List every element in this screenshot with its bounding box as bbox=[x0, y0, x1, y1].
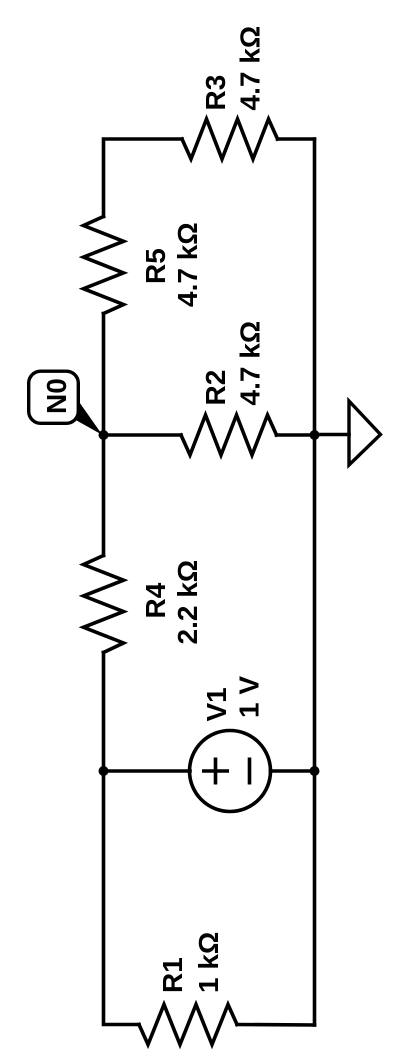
node A junction dot (N0 left) bbox=[99, 430, 109, 440]
svg-text:R1: R1 bbox=[157, 957, 188, 993]
wire: bottom wire right lead bbox=[237, 1023, 315, 1027]
resistor R1 bbox=[139, 1005, 237, 1045]
node N0 callout tail bbox=[65, 398, 103, 436]
wire: left rail V1 row to bottom wire bbox=[104, 771, 140, 1025]
resistor R3 bbox=[182, 119, 278, 159]
V1 plus sign bbox=[202, 758, 250, 785]
svg-text:R2: R2 bbox=[200, 370, 231, 406]
V1 minus sign bbox=[248, 758, 252, 785]
wire: ground stub bbox=[315, 433, 350, 437]
resistor R4 bbox=[84, 556, 124, 653]
svg-text:R3: R3 bbox=[200, 75, 231, 111]
svg-text:V1: V1 bbox=[201, 687, 232, 721]
voltage source V1 bbox=[190, 731, 271, 812]
node N0 callout box bbox=[29, 371, 79, 423]
svg-text:4.7 kΩ: 4.7 kΩ bbox=[172, 222, 203, 307]
wire: R2 to right rail bbox=[277, 433, 315, 437]
wire: top wire left lead (y=139) bbox=[104, 139, 183, 217]
svg-text:1 V: 1 V bbox=[234, 676, 265, 718]
wire: node N0 to R4 bbox=[102, 435, 106, 556]
svg-text:4.7 kΩ: 4.7 kΩ bbox=[235, 321, 266, 406]
svg-text:4.7 kΩ: 4.7 kΩ bbox=[235, 26, 266, 111]
svg-text:R5: R5 bbox=[140, 248, 171, 284]
node junction dot right rail at V1 bbox=[310, 766, 320, 776]
resistor R5 bbox=[84, 217, 124, 314]
wire: top wire right lead to right rail bbox=[278, 137, 315, 141]
svg-text:1 kΩ: 1 kΩ bbox=[193, 932, 224, 993]
resistor R2 bbox=[181, 415, 277, 455]
svg-text:R4: R4 bbox=[140, 582, 171, 618]
node junction dot right rail at R2 bbox=[310, 430, 320, 440]
wire: left rail R5 to node N0 bbox=[102, 314, 106, 436]
svg-text:N0: N0 bbox=[41, 378, 72, 414]
wire: right rail bbox=[313, 139, 317, 1025]
wire: node N0 to R2 bbox=[104, 433, 182, 437]
svg-text:2.2 kΩ: 2.2 kΩ bbox=[172, 560, 203, 645]
ground bbox=[349, 401, 381, 465]
node junction dot left rail at V1 bbox=[99, 766, 109, 776]
wire: left rail R4 to V1 row bbox=[102, 653, 106, 772]
wire: V1 right lead bbox=[271, 769, 315, 773]
wire: V1 left lead bbox=[104, 769, 191, 773]
